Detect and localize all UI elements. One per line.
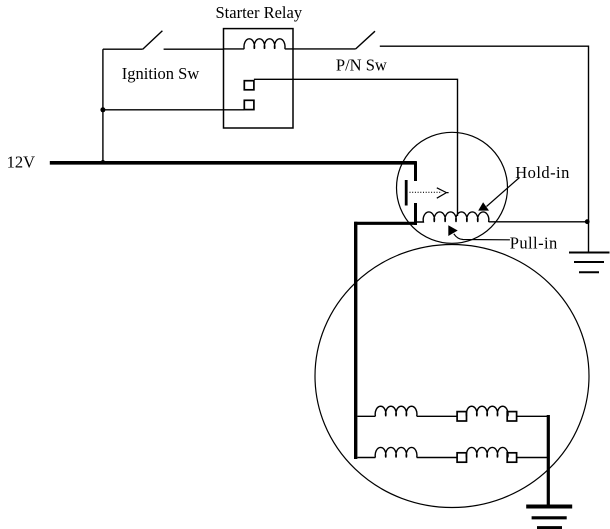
svg-text:P/N Sw: P/N Sw: [336, 56, 387, 75]
wire hold-in coil to right rail: [489, 221, 589, 223]
thick wire left vertical to field coils: [354, 222, 357, 459]
svg-text:12V: 12V: [7, 153, 35, 172]
relay box K1: [224, 29, 294, 128]
dotted arrow: [410, 191, 443, 193]
solenoid circle: [397, 132, 508, 243]
terminal square row 1 b: [507, 412, 516, 421]
arrow hold-in leader: [487, 178, 520, 207]
terminal square row 2 b: [507, 453, 516, 462]
terminal square 1: [244, 81, 254, 90]
thick wire right vertical to ground: [547, 415, 550, 506]
terminal square 2: [244, 100, 254, 109]
ground bottom: [526, 505, 572, 509]
wire field row 2 mid: [417, 457, 457, 459]
wire field row 1 right: [517, 415, 549, 417]
wire relay coil to P/N switch: [293, 48, 356, 50]
wire left vertical from ignition to 12V bus: [102, 49, 104, 162]
wire relay terminal 1 to solenoid winding: [254, 79, 458, 216]
arrow pull-in leader: [454, 234, 510, 240]
terminal square row 1 a: [457, 412, 466, 421]
thick wire lower contact to motor: [354, 222, 417, 225]
node junction dot: [100, 107, 105, 112]
contact upper fixed: [414, 161, 417, 181]
wire field row 2 left: [358, 457, 376, 459]
wire ignition feed: [103, 48, 143, 50]
switch ignition arm: [143, 31, 163, 49]
hold-in coil: [417, 212, 489, 222]
wire ignition switch to relay: [164, 48, 224, 50]
wire field row 1 mid: [417, 415, 457, 417]
svg-text:Ignition Sw: Ignition Sw: [122, 64, 200, 83]
field coil 4: [466, 447, 508, 457]
relay coil: [244, 39, 285, 49]
motor ellipse: [315, 245, 589, 508]
wire relay coil to box edges: [224, 48, 294, 50]
contact lower fixed: [414, 203, 417, 225]
node junction dot on 12V bus: [101, 160, 105, 164]
wire field row 2 right: [517, 457, 549, 459]
terminal square row 2 a: [457, 453, 466, 462]
wire field row 1 left: [358, 415, 376, 417]
wire junction to relay terminal 2: [103, 109, 244, 111]
field coil 3: [375, 447, 417, 457]
svg-text:Starter Relay: Starter Relay: [216, 3, 303, 22]
field coil 1: [375, 406, 417, 416]
ground right: [569, 253, 610, 273]
svg-text:Pull-in: Pull-in: [510, 233, 558, 252]
wire 12V bus thick: [50, 161, 417, 165]
svg-text:Hold-in: Hold-in: [515, 163, 569, 182]
node junction dot right rail: [585, 219, 590, 224]
switch P/N arm: [356, 31, 375, 49]
wire P/N switch to right rail: [380, 46, 589, 252]
field coil 2: [466, 406, 508, 416]
contact movable bar: [405, 180, 408, 206]
